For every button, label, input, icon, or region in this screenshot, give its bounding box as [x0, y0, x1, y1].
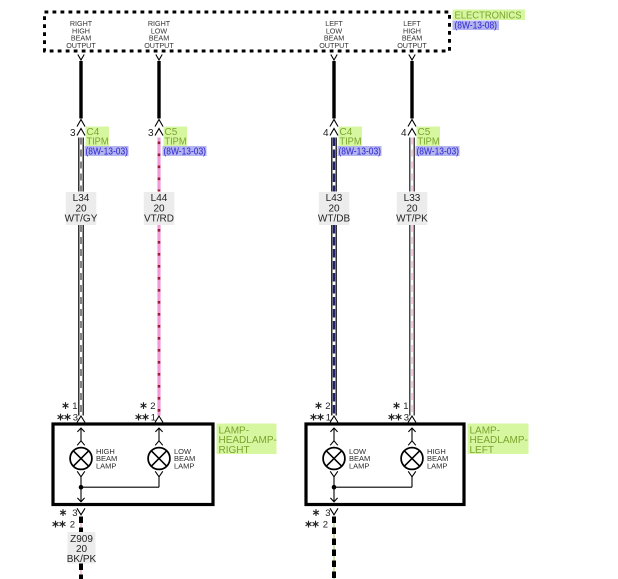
terminal chevron below HIGH BEAM LAMP [77, 471, 85, 477]
pin label ✱ 2 / ✱✱ 1 at lamp connector [136, 401, 156, 424]
wire internal ground bus [334, 477, 412, 487]
component box LAMP-HEADLAMP-RIGHT [53, 424, 213, 505]
connector chevron at TIPM output L33 [409, 55, 415, 61]
svg-text:3: 3 [72, 508, 77, 519]
svg-text:LEFT: LEFT [470, 445, 494, 456]
pin label RIGHT HIGH BEAM OUTPUT [66, 19, 96, 50]
svg-text:4: 4 [323, 128, 329, 139]
terminal arrow into HIGH BEAM LAMP [408, 428, 416, 445]
wire label L34 20 WT/GY [65, 192, 98, 225]
wire Z909 BK/PK segment [333, 517, 335, 579]
svg-text:OUTPUT: OUTPUT [144, 41, 174, 50]
terminal arrow to ground pin [333, 487, 335, 502]
wire L33 WT/PK upper segment [411, 138, 413, 192]
label LAMP-HEADLAMP-RIGHT [217, 424, 277, 456]
junction node [79, 485, 84, 490]
svg-text:1: 1 [72, 401, 77, 412]
svg-text:WT/GY: WT/GY [65, 213, 98, 224]
connector chevron at lamp pin [330, 416, 338, 423]
wire L44 VT/RD upper segment [157, 138, 160, 192]
bulb HIGH BEAM LAMP [70, 448, 92, 470]
label C5 TIPM (8W-13-03) [163, 127, 207, 158]
pin label LEFT LOW BEAM OUTPUT [319, 19, 349, 50]
terminal arrow into LOW BEAM LAMP [155, 428, 163, 445]
terminal chevron below LOW BEAM LAMP [155, 471, 163, 477]
svg-text:OUTPUT: OUTPUT [319, 41, 349, 50]
label LOW BEAM LAMP [349, 447, 370, 471]
label C4 TIPM (8W-13-03) [338, 127, 382, 158]
connector chevron at lamp pin [408, 416, 416, 423]
connector chevron at TIPM output L44 [156, 55, 162, 61]
wire label L33 20 WT/PK [396, 192, 428, 225]
svg-text:3: 3 [325, 508, 330, 519]
wire L33 solid segment from TIPM [410, 61, 413, 119]
bulb HIGH BEAM LAMP [401, 448, 423, 470]
svg-text:WT/DB: WT/DB [318, 213, 351, 224]
svg-text:LAMP: LAMP [174, 461, 194, 470]
svg-text:(8W-13-08): (8W-13-08) [455, 21, 498, 32]
svg-text:(8W-13-03): (8W-13-03) [164, 146, 207, 157]
terminal arrow to ground pin [80, 487, 82, 502]
svg-text:LAMP: LAMP [349, 461, 369, 470]
in-line connector C5 pin 3 [155, 120, 163, 136]
connector chevron at lamp pin [155, 416, 163, 423]
svg-text:2: 2 [150, 401, 155, 412]
label HIGH BEAM LAMP [427, 447, 448, 471]
bulb LOW BEAM LAMP [323, 448, 345, 470]
svg-text:1: 1 [403, 401, 408, 412]
terminal chevron below HIGH BEAM LAMP [408, 471, 416, 477]
svg-text:(8W-13-03): (8W-13-03) [86, 146, 129, 157]
wire Z909 BK/PK upper segment [80, 517, 82, 533]
connector chevron at lamp pin [77, 416, 85, 423]
label LAMP-HEADLAMP-LEFT [468, 424, 529, 456]
svg-text:3: 3 [148, 128, 154, 139]
wire L43 WT/DB upper segment [333, 138, 335, 192]
wire L44 VT/RD lower segment [157, 225, 160, 416]
svg-text:(8W-13-03): (8W-13-03) [339, 146, 382, 157]
in-line connector C4 pin 4 [330, 120, 338, 136]
terminal arrow into HIGH BEAM LAMP [77, 428, 85, 445]
junction node [332, 485, 337, 490]
wire L43 WT/DB lower segment [333, 225, 335, 416]
label C5 TIPM (8W-13-03) [416, 127, 460, 158]
svg-text:3: 3 [70, 128, 76, 139]
svg-text:OUTPUT: OUTPUT [397, 41, 427, 50]
connector chevron at TIPM output L34 [78, 55, 84, 61]
wire Z909 BK/PK lower segment [80, 564, 82, 579]
in-line connector C5 pin 4 [408, 120, 416, 136]
connector chevron below lamp box [77, 508, 85, 515]
pin label ✱ 3 / ✱✱ 2 ground pin [306, 508, 331, 531]
connector chevron at TIPM output L43 [331, 55, 337, 61]
wire internal ground bus [81, 477, 159, 487]
wire L33 WT/PK lower segment [411, 225, 413, 416]
pin label ✱ 1 / ✱✱ 3 at lamp connector [389, 401, 409, 424]
svg-text:2: 2 [70, 520, 75, 531]
wire L34 WT/GY lower segment [80, 225, 82, 416]
terminal arrow into LOW BEAM LAMP [330, 428, 338, 445]
component box LAMP-HEADLAMP-LEFT [306, 424, 464, 505]
svg-text:(8W-13-03): (8W-13-03) [417, 146, 460, 157]
pin label LEFT HIGH BEAM OUTPUT [397, 19, 427, 50]
label LOW BEAM LAMP [174, 447, 195, 471]
wire label L44 20 VT/RD [144, 192, 175, 225]
label ELECTRONICS (8W-13-08) [453, 10, 526, 32]
in-line connector C4 pin 3 [77, 120, 85, 136]
wire L44 solid segment from TIPM [157, 61, 160, 119]
svg-text:LAMP: LAMP [427, 461, 447, 470]
pin label ✱ 3 / ✱✱ 2 ground pin [53, 508, 78, 531]
label C4 TIPM (8W-13-03) [85, 127, 129, 158]
svg-text:4: 4 [401, 128, 407, 139]
label HIGH BEAM LAMP [96, 447, 117, 471]
connector chevron below lamp box [330, 508, 338, 515]
pin label ✱ 1 / ✱✱ 3 at lamp connector [58, 401, 78, 424]
svg-text:2: 2 [325, 401, 330, 412]
pin label RIGHT LOW BEAM OUTPUT [144, 19, 174, 50]
wire label L43 20 WT/DB [318, 192, 351, 225]
terminal chevron below LOW BEAM LAMP [330, 471, 338, 477]
wire L34 WT/GY upper segment [80, 138, 82, 192]
bulb LOW BEAM LAMP [148, 448, 170, 470]
svg-text:WT/PK: WT/PK [396, 213, 428, 224]
pin label ✱ 2 / ✱✱ 1 at lamp connector [311, 401, 331, 424]
svg-text:LAMP: LAMP [96, 461, 116, 470]
svg-text:VT/RD: VT/RD [144, 213, 174, 224]
svg-text:RIGHT: RIGHT [219, 445, 250, 456]
wire L43 solid segment from TIPM [332, 61, 335, 119]
connector module TIPM/ELECTRONICS dashed box [45, 12, 450, 51]
svg-text:2: 2 [323, 520, 328, 531]
wire L34 solid segment from TIPM [79, 61, 82, 119]
wire label Z909 20 BK/PK [67, 532, 97, 565]
svg-text:OUTPUT: OUTPUT [66, 41, 96, 50]
